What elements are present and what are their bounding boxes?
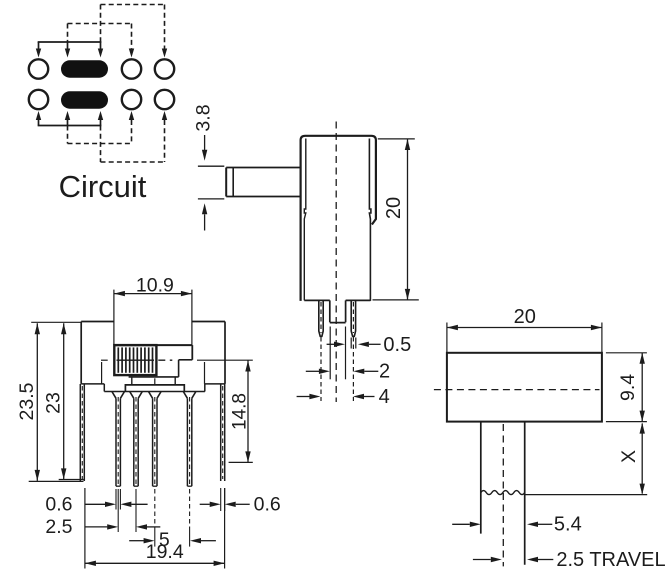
svg-text:0.6: 0.6 — [254, 493, 281, 515]
svg-text:4: 4 — [379, 386, 390, 408]
svg-text:20: 20 — [514, 306, 536, 328]
svg-text:2.5: 2.5 — [45, 516, 72, 538]
svg-text:19.4: 19.4 — [146, 541, 184, 563]
svg-text:0.5: 0.5 — [383, 334, 411, 356]
svg-text:9.4: 9.4 — [617, 374, 639, 401]
svg-text:23: 23 — [43, 392, 65, 414]
svg-text:14.8: 14.8 — [230, 393, 251, 430]
svg-text:Circuit: Circuit — [59, 169, 147, 204]
svg-text:20: 20 — [383, 197, 405, 219]
svg-text:0.6: 0.6 — [45, 493, 72, 515]
svg-text:5.4: 5.4 — [554, 513, 582, 535]
svg-text:23.5: 23.5 — [16, 382, 38, 420]
svg-text:2.5 TRAVEL: 2.5 TRAVEL — [556, 549, 665, 571]
svg-text:X: X — [618, 450, 640, 463]
svg-text:2: 2 — [379, 360, 390, 382]
svg-text:3.8: 3.8 — [193, 104, 215, 131]
